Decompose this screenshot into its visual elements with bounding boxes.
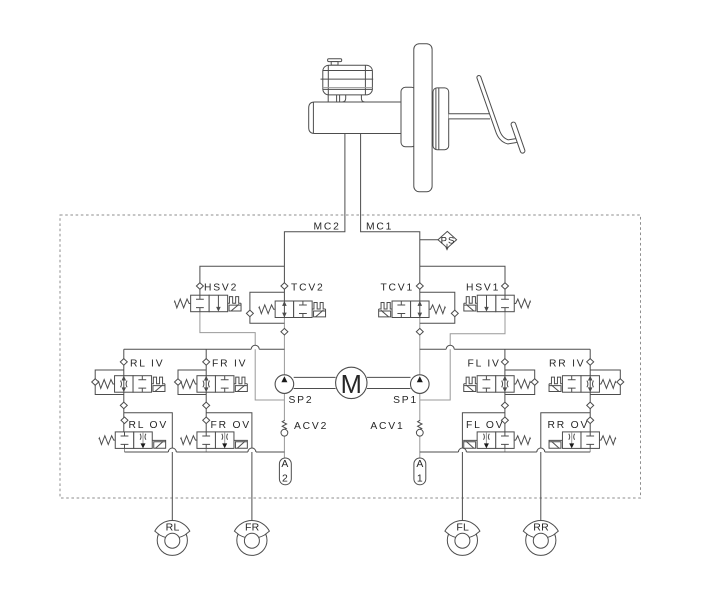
motor M [336,367,367,398]
accumulator A2 [279,458,291,485]
reservoir outlet stubs [328,95,365,102]
wire inlet-valve supply rail (left) [124,348,285,350]
wheel brake FL [445,521,480,556]
solenoid valve RR OV [549,432,616,449]
svg-text:MC1: MC1 [366,222,393,233]
brake pedal arm [479,78,516,142]
wire branch to HSV1 [420,266,505,295]
svg-text:FL OV: FL OV [466,420,504,431]
solenoid valve FL OV [464,432,531,449]
wire TCV2 to pump SP2 [283,318,285,375]
wire pump SP2 to accumulator A2 [283,393,285,458]
svg-text:RR IV: RR IV [549,358,585,369]
solenoid valve RL IV [98,376,165,393]
wire RL wheel branch [124,413,173,521]
svg-text:MC2: MC2 [314,222,341,233]
wire MC2 circuit from master cylinder [284,134,345,302]
port filter diamonds [196,283,203,290]
crossover hop [248,448,256,452]
svg-text:RL OV: RL OV [129,420,169,431]
check valve ACV1 [416,420,423,436]
wire IV drops from rail [124,349,590,376]
svg-text:SP1: SP1 [393,395,418,406]
wire FL wheel branch [462,413,505,521]
solenoid valve RR IV [549,376,616,393]
accumulator A1 [414,458,426,485]
wire HSV2 output to pump suction [200,312,285,400]
master cylinder body [309,102,404,134]
svg-text:RR OV: RR OV [548,420,590,431]
svg-text:TCV1: TCV1 [380,282,414,293]
brake pedal pad [513,124,522,150]
wire outlet-valve return rail (left) [125,448,207,452]
TCV2 bypass with filter [250,292,285,323]
svg-text:RR: RR [533,521,549,533]
TCV1 bypass with filter [420,292,455,323]
FR IV bypass with filter [178,370,206,395]
svg-text:M: M [341,371,362,399]
svg-text:HSV2: HSV2 [204,282,238,293]
brake fluid reservoir [321,65,374,95]
wire FR wheel branch [206,413,252,521]
RR IV bypass with filter [590,370,620,395]
solenoid valve HSV2 [174,295,241,312]
booster push rod [449,113,490,119]
pressure sensor PS [438,231,457,250]
solenoid valve RL OV [99,432,166,449]
wire pump SP1 to accumulator A1 [419,393,421,458]
booster mounting bracket [401,87,416,147]
solenoid valve FR IV [181,376,248,393]
svg-text:A: A [416,459,423,470]
solenoid valve TCV2 [259,301,326,318]
wire RR wheel branch [541,413,590,521]
svg-text:TCV2: TCV2 [291,282,325,293]
wire IV to OV interconnect [124,392,590,432]
solenoid valve FR OV [181,432,248,449]
svg-text:RL IV: RL IV [130,358,164,369]
svg-text:A: A [281,459,288,470]
pump SP2 [275,375,294,394]
solenoid valve FL IV [464,376,531,393]
svg-text:2: 2 [282,474,288,485]
svg-text:FL IV: FL IV [468,358,501,369]
svg-text:FR IV: FR IV [212,358,247,369]
svg-text:FR OV: FR OV [211,420,251,431]
RL IV bypass with filter [95,370,124,395]
svg-text:ACV2: ACV2 [294,421,328,432]
wire branch to pressure sensor [420,239,438,241]
crossover hop [251,345,259,349]
svg-text:FR: FR [245,521,260,533]
svg-text:HSV1: HSV1 [466,282,500,293]
svg-text:SP2: SP2 [289,395,314,406]
wire HSV1 output to pump suction [420,312,505,400]
svg-text:RL: RL [166,521,180,533]
motor shaft lines [294,377,411,388]
check valve ACV2 [281,420,288,436]
wire outlet-valve return rail (right) [505,448,590,452]
pump SP1 [411,375,430,394]
solenoid valve TCV1 [379,301,446,318]
crossover hop [537,448,545,452]
reservoir cap [328,59,342,65]
wire TCV1 to pump SP1 [419,318,421,375]
wire MC1 circuit from master cylinder [361,134,420,302]
wire branch to HSV2 [200,266,285,295]
solenoid valve HSV1 [464,295,531,312]
FL IV bypass with filter [505,370,535,395]
booster rear flange [433,88,449,150]
wheel brake RL [155,521,190,556]
svg-text:1: 1 [417,474,423,485]
wire inlet-valve supply rail (right) [420,348,590,350]
crossover hop [458,448,466,452]
svg-text:FL: FL [456,521,469,533]
wheel brake RR [523,521,558,556]
vacuum booster [414,44,432,192]
crossover hop [446,345,454,349]
wheel brake FR [234,521,269,556]
svg-text:ACV1: ACV1 [370,421,404,432]
HCU boundary (dashed box) [60,215,641,498]
svg-text:PS: PS [441,235,456,246]
crossover hop [168,448,176,452]
